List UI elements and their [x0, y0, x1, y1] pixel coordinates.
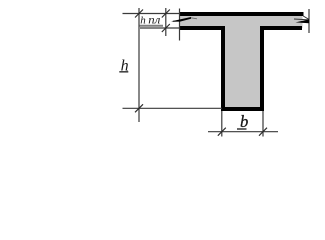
- dimension line h (vertical): [138, 8, 140, 122]
- label h underline: [119, 71, 128, 73]
- web left thick edge: [221, 26, 225, 111]
- b extension line left: [221, 111, 223, 137]
- extension line flange top (left): [123, 13, 181, 15]
- right break zigzag arrow: [294, 16, 309, 23]
- flange top thick edge: [179, 12, 304, 16]
- tick at h_pl top: [162, 10, 170, 18]
- web right thick edge: [260, 26, 264, 111]
- left break zigzag arrow: [171, 17, 197, 22]
- tick at h bottom: [135, 104, 143, 112]
- label b underline: [237, 128, 247, 130]
- dimension line h_pl (vertical): [165, 8, 167, 36]
- tick at h_pl bottom: [162, 24, 170, 32]
- web bottom thick edge: [221, 107, 264, 111]
- left break line: [179, 9, 181, 41]
- label h_pl underline: [140, 25, 164, 27]
- flange bottom thick edge left: [179, 26, 225, 30]
- tick at b right: [259, 128, 267, 136]
- svg-text:пл: пл: [148, 15, 160, 27]
- tick at b left: [218, 128, 226, 136]
- b extension line right: [262, 111, 264, 137]
- tick at h top: [135, 10, 143, 18]
- dimension line b (horizontal): [208, 131, 278, 133]
- extension line web bottom (left): [123, 107, 223, 109]
- right break line: [308, 9, 310, 33]
- svg-text:b: b: [240, 112, 248, 131]
- flange bottom thick edge right: [260, 26, 302, 30]
- flange gray fill: [179, 14, 303, 28]
- web gray fill: [223, 14, 262, 109]
- svg-text:h: h: [140, 14, 146, 26]
- extension line flange bottom (left): [140, 27, 180, 29]
